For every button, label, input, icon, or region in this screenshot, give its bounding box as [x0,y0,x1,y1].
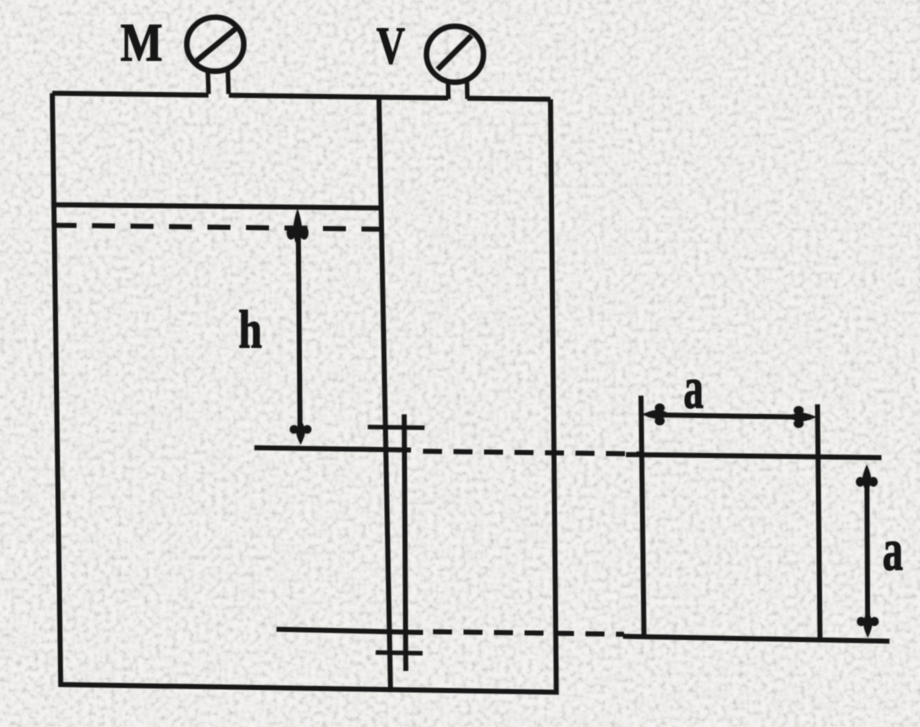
svg-text:V: V [377,17,406,75]
svg-text:M: M [121,13,163,73]
svg-text:h: h [238,299,262,359]
svg-text:a: a [882,517,903,583]
svg-text:a: a [684,354,704,420]
